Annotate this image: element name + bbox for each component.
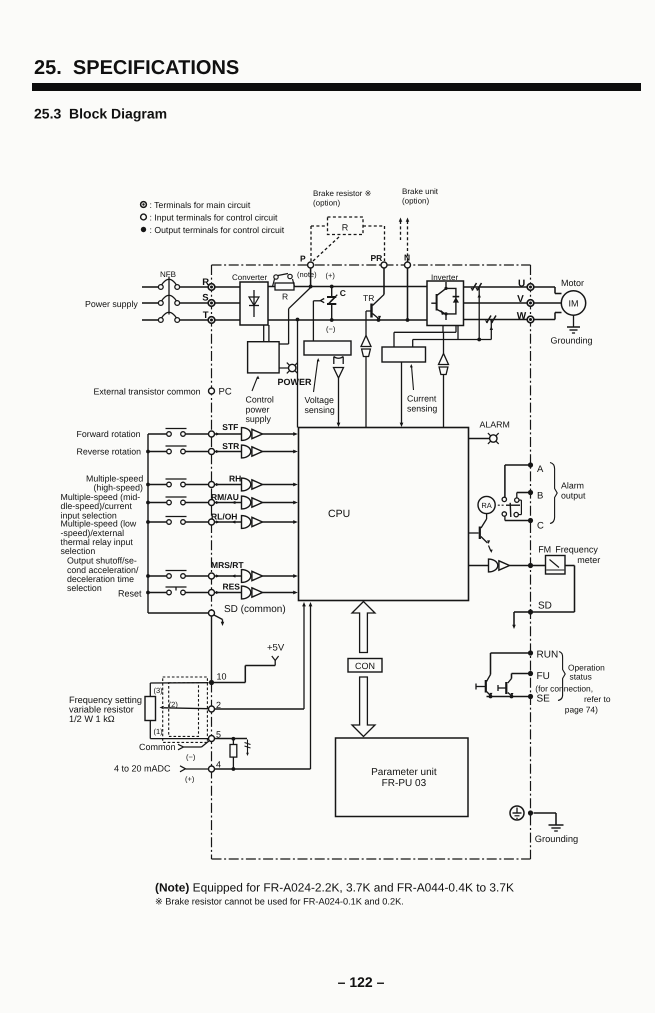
svg-text:Parameter unit: Parameter unit: [371, 767, 437, 778]
svg-text:Voltage: Voltage: [305, 395, 334, 405]
svg-text:STF: STF: [222, 422, 238, 432]
svg-text:(1): (1): [154, 727, 164, 736]
svg-text:C: C: [340, 288, 346, 298]
svg-text:CPU: CPU: [328, 508, 350, 520]
svg-text:25.3 Block Diagram: 25.3 Block Diagram: [34, 106, 167, 122]
svg-text:4: 4: [216, 760, 221, 770]
svg-text:(option): (option): [313, 199, 340, 208]
svg-text:1/2 W 1 kΩ: 1/2 W 1 kΩ: [69, 714, 115, 724]
svg-text:status: status: [570, 672, 592, 682]
svg-text:(Note) Equipped for FR-A024-2.: (Note) Equipped for FR-A024-2.2K, 3.7K a…: [155, 881, 514, 895]
svg-text:sensing: sensing: [407, 404, 437, 414]
svg-text:power: power: [246, 404, 270, 414]
svg-text:A: A: [537, 464, 544, 475]
svg-text:External transistor common: External transistor common: [94, 387, 201, 397]
svg-text:POWER: POWER: [278, 377, 313, 387]
svg-text:Converter: Converter: [232, 273, 267, 282]
svg-text:Brake resistor ※: Brake resistor ※: [313, 189, 371, 198]
svg-text:SE: SE: [537, 694, 551, 705]
svg-text:MRS/RT: MRS/RT: [211, 560, 244, 570]
svg-text:(−): (−): [326, 325, 336, 334]
svg-text:RL/OH: RL/OH: [211, 512, 237, 522]
svg-text:: Output terminals for control: : Output terminals for control circuit: [150, 225, 285, 235]
svg-text:4 to 20 mADC: 4 to 20 mADC: [114, 764, 171, 774]
svg-text:Current: Current: [407, 394, 437, 404]
svg-text:※ Brake resistor cannot be use: ※ Brake resistor cannot be used for FR-A…: [155, 897, 404, 907]
svg-text:Grounding: Grounding: [535, 834, 578, 844]
svg-text:SD (common): SD (common): [224, 604, 286, 615]
svg-text:FM: FM: [538, 545, 551, 555]
svg-text:selection: selection: [67, 583, 102, 593]
svg-text:TR: TR: [363, 293, 374, 303]
svg-text:25. SPECIFICATIONS: 25. SPECIFICATIONS: [34, 57, 239, 79]
svg-text:: Terminals for main circuit: : Terminals for main circuit: [150, 200, 251, 210]
svg-text:RH: RH: [229, 474, 241, 484]
svg-text:refer to: refer to: [584, 694, 611, 704]
svg-text:NFB: NFB: [160, 270, 176, 279]
svg-text:(+): (+): [185, 775, 195, 784]
svg-text:U: U: [518, 279, 525, 290]
svg-text:+5V: +5V: [267, 643, 285, 654]
svg-text:R: R: [342, 222, 349, 232]
svg-text:– 122 –: – 122 –: [338, 974, 385, 990]
svg-text:Forward rotation: Forward rotation: [77, 429, 141, 439]
svg-text:sensing: sensing: [305, 405, 335, 415]
svg-text:PC: PC: [219, 387, 232, 398]
svg-text:variable resistor: variable resistor: [69, 705, 134, 715]
svg-text:Frequency setting: Frequency setting: [69, 695, 142, 705]
svg-text:(+): (+): [326, 271, 336, 280]
svg-text:page 74): page 74): [565, 705, 598, 715]
svg-text:Frequency: Frequency: [555, 545, 598, 555]
svg-text:Reverse rotation: Reverse rotation: [77, 447, 142, 457]
svg-text:B: B: [537, 491, 543, 502]
svg-text:ALARM: ALARM: [480, 420, 510, 430]
svg-text:(option): (option): [402, 197, 429, 206]
svg-text:V: V: [517, 294, 524, 305]
svg-text:Control: Control: [246, 395, 274, 405]
svg-text:dle-speed)/current: dle-speed)/current: [61, 501, 133, 511]
svg-text:10: 10: [217, 672, 227, 682]
svg-text:RES: RES: [223, 582, 241, 592]
svg-text:STR: STR: [222, 441, 239, 451]
svg-text:selection: selection: [61, 546, 96, 556]
svg-text:IM: IM: [569, 299, 579, 309]
svg-text:meter: meter: [577, 555, 600, 565]
svg-text:Reset: Reset: [118, 589, 142, 599]
svg-text:Brake unit: Brake unit: [402, 187, 439, 196]
svg-text:(note): (note): [297, 270, 317, 279]
svg-text:C: C: [537, 521, 544, 532]
svg-text:RA: RA: [481, 501, 491, 510]
svg-text:(for connection,: (for connection,: [535, 684, 593, 694]
svg-text:RM/AU: RM/AU: [211, 492, 239, 502]
svg-text:R: R: [282, 292, 288, 302]
svg-text:SD: SD: [538, 601, 552, 612]
svg-text:Power supply: Power supply: [85, 299, 138, 309]
svg-text:Grounding: Grounding: [551, 336, 593, 346]
svg-text:P: P: [300, 254, 306, 264]
svg-text:N: N: [404, 253, 410, 263]
svg-text:Motor: Motor: [561, 278, 584, 288]
svg-text:(3): (3): [154, 686, 164, 695]
svg-text:output: output: [561, 491, 586, 501]
svg-text:: Input terminals for control: : Input terminals for control circuit: [150, 212, 279, 222]
svg-text:Alarm: Alarm: [561, 481, 584, 491]
svg-text:(high-speed): (high-speed): [94, 483, 143, 493]
svg-text:CON: CON: [355, 661, 375, 671]
svg-text:W: W: [517, 311, 527, 322]
svg-text:PR: PR: [371, 253, 383, 263]
svg-text:RUN: RUN: [537, 650, 559, 661]
svg-text:FR-PU 03: FR-PU 03: [382, 778, 427, 789]
svg-text:supply: supply: [246, 414, 272, 424]
svg-text:(−): (−): [186, 753, 196, 762]
svg-text:Common: Common: [139, 742, 176, 752]
svg-text:FU: FU: [537, 671, 550, 682]
